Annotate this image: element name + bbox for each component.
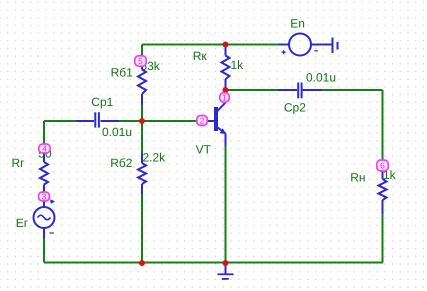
wire base rail Cp1 to transistor	[119, 120, 201, 122]
battery En plus mark	[282, 50, 286, 54]
svg-text:En: En	[290, 16, 305, 30]
wire Rn bottom to bottom rail	[382, 214, 384, 263]
ground	[218, 263, 234, 279]
resistor Rb1	[138, 58, 146, 105]
svg-text:Rб1: Rб1	[111, 66, 134, 80]
svg-text:1: 1	[222, 92, 227, 102]
wire top rail from Rb1 corner to En	[142, 44, 279, 46]
wire Rb1 bottom to base junction	[141, 105, 143, 121]
junction collector node	[223, 87, 229, 93]
wire base rail horizontal left segment	[44, 120, 76, 122]
capacitor Cp1	[76, 112, 119, 127]
wire Cp2 to right corner	[322, 89, 383, 91]
transistor VT emitter arrowhead	[220, 128, 227, 134]
svg-text:Cp1: Cp1	[91, 95, 113, 109]
resistor Rn	[379, 167, 387, 214]
svg-text:Rн: Rн	[350, 171, 365, 185]
svg-text:0.01u: 0.01u	[306, 71, 336, 85]
Er plus arrow	[50, 199, 55, 204]
resistor Rb2	[138, 153, 146, 194]
node 5	[135, 56, 147, 67]
battery En	[279, 34, 338, 56]
svg-text:Rк: Rк	[193, 49, 208, 63]
junction top of Rk	[223, 42, 229, 48]
svg-text:3: 3	[42, 191, 47, 201]
svg-text:2: 2	[200, 115, 205, 125]
svg-text:VT: VT	[196, 143, 212, 157]
junction Rb2 bottom	[139, 260, 145, 266]
node 3	[39, 191, 50, 201]
battery En minus mark	[315, 50, 318, 52]
svg-text:6: 6	[380, 160, 385, 170]
svg-text:1k: 1k	[231, 58, 245, 72]
wire emitter to bottom rail	[225, 146, 227, 263]
wire right vertical down to Rn	[382, 90, 384, 167]
svg-text:Eг: Eг	[16, 216, 29, 230]
junction emitter-ground	[223, 260, 229, 266]
capacitor Cp2	[278, 83, 322, 99]
node 1	[220, 92, 230, 102]
node 4	[39, 143, 51, 153]
wire left vertical corner down to Rg	[43, 121, 45, 150]
resistor Rk	[222, 45, 230, 91]
wire top-left vertical into Rb1	[141, 45, 143, 59]
wire Rb2 bottom to bottom rail	[141, 194, 143, 263]
svg-text:2.2k: 2.2k	[143, 151, 167, 165]
wire collector out to Cp2	[226, 89, 279, 91]
wire base junction down to Rb2	[141, 121, 143, 154]
svg-text:Cp2: Cp2	[284, 101, 306, 115]
junction base node	[139, 118, 145, 124]
svg-text:4: 4	[42, 143, 47, 153]
svg-text:5: 5	[138, 56, 143, 66]
svg-text:Rб2: Rб2	[110, 156, 133, 170]
resistor Rg	[40, 150, 48, 197]
transistor VT	[201, 90, 226, 146]
wire bottom rail	[44, 262, 383, 264]
node 6	[377, 160, 389, 171]
svg-text:0.01u: 0.01u	[102, 125, 132, 139]
node 2	[197, 115, 208, 125]
svg-text:Rг: Rг	[12, 156, 26, 170]
sine source Er	[34, 197, 55, 238]
Er minus mark	[50, 232, 54, 234]
wire Er bottom to bottom rail	[43, 238, 45, 263]
